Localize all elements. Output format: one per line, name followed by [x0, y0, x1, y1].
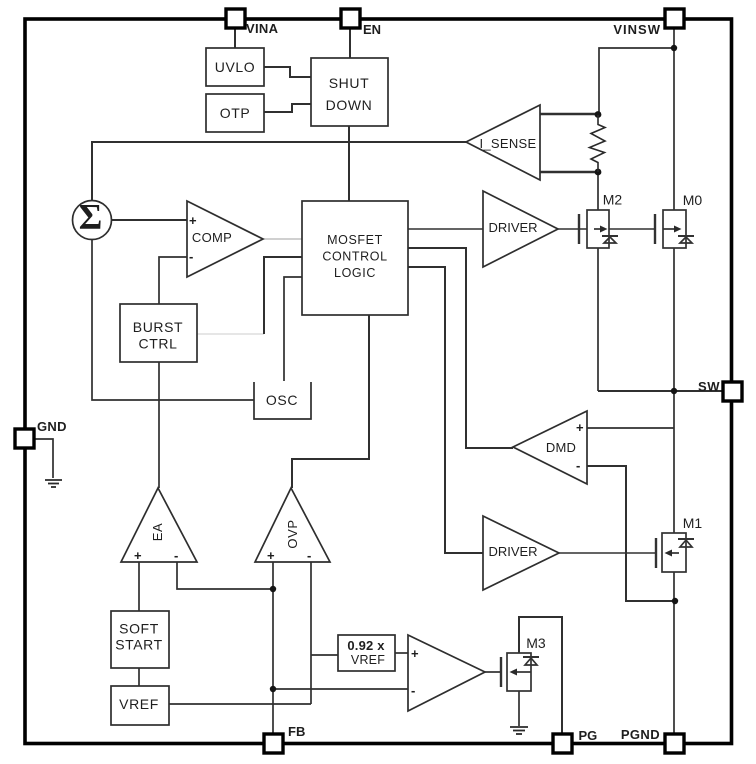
- svg-text:VREF: VREF: [119, 696, 159, 712]
- wire COMP output to MOSFET CONTROL LOGIC: [263, 238, 302, 240]
- transistor M0: [655, 210, 694, 248]
- svg-text:-: -: [411, 683, 415, 698]
- wire 0.92x block to PG comparator + input: [395, 652, 408, 654]
- svg-text:SW: SW: [698, 379, 720, 394]
- block OTP: [206, 94, 264, 132]
- comparator PG: [408, 635, 485, 711]
- svg-text:M3: M3: [526, 635, 546, 651]
- wire M3 drain to PG pin: [519, 617, 562, 733]
- svg-text:PG: PG: [579, 728, 598, 743]
- wire DMD + input to SW net: [587, 427, 674, 429]
- transistor M2: [579, 210, 618, 248]
- wire M3 source to ground: [518, 691, 520, 726]
- pin EN: [341, 9, 360, 28]
- node SW junction: [671, 388, 677, 394]
- wire M0 source down to SW rail: [673, 248, 675, 391]
- wire OVP - input down to VREF net: [310, 562, 312, 704]
- ground symbol at M3 source: [510, 727, 528, 734]
- svg-text:+: +: [411, 646, 419, 661]
- wire MCL to DMD output: [408, 248, 513, 448]
- svg-text:0.92 x: 0.92 x: [347, 638, 385, 653]
- wire M1 source to PGND pin: [673, 572, 675, 733]
- block SHUT DOWN: [311, 58, 388, 126]
- pin FB: [264, 734, 283, 753]
- svg-text:Σ: Σ: [79, 197, 103, 237]
- wire VINSW branch to sense resistor top: [599, 48, 674, 115]
- wire FB net to PG comparator - input: [273, 688, 408, 690]
- svg-text:+: +: [576, 420, 584, 435]
- svg-text:+: +: [267, 548, 275, 563]
- wire DRIVER2 output to M1 gate: [559, 552, 656, 554]
- wire MCL left to OSC top: [284, 277, 302, 381]
- wire PG comparator output to M3 gate: [485, 671, 501, 673]
- block BURST CTRL: [120, 304, 197, 362]
- wire M2 source down to SW rail: [597, 248, 599, 391]
- svg-text:DRIVER: DRIVER: [488, 544, 537, 559]
- wire SW rail down to M1 drain: [673, 391, 675, 533]
- svg-text:PGND: PGND: [621, 727, 660, 742]
- wire UVLO to SHUT DOWN: [264, 67, 311, 77]
- svg-text:+: +: [189, 213, 197, 228]
- svg-text:GND: GND: [37, 419, 67, 434]
- svg-text:LOGIC: LOGIC: [334, 266, 376, 280]
- wire I_SENSE output to sigma node: [92, 142, 466, 201]
- pin PGND: [665, 734, 684, 753]
- wire EN pin to SHUT DOWN: [349, 28, 351, 58]
- block SOFT START: [111, 611, 169, 668]
- svg-text:-: -: [307, 548, 311, 563]
- wire BURST CTRL bottom to EA output: [158, 362, 160, 488]
- svg-text:I_SENSE: I_SENSE: [479, 136, 536, 151]
- svg-text:EN: EN: [363, 22, 381, 37]
- node resistor bottom: [595, 169, 602, 176]
- svg-text:-: -: [576, 458, 580, 473]
- svg-text:MOSFET: MOSFET: [327, 233, 383, 247]
- wire sigma output to COMP + input: [112, 219, 187, 221]
- pin PG: [553, 734, 572, 753]
- node resistor top: [595, 111, 602, 118]
- wire VINSW pin down to M0 drain: [673, 28, 675, 210]
- svg-text:M2: M2: [603, 192, 623, 208]
- comparator OVP: [255, 488, 330, 562]
- svg-text:EA: EA: [150, 523, 165, 542]
- node M1 source junction: [672, 598, 678, 604]
- block UVLO: [206, 48, 264, 86]
- wire BURST CTRL feed up into MCL: [264, 257, 302, 334]
- pin SW: [723, 382, 742, 401]
- wire SOFT START to VREF: [138, 668, 140, 686]
- svg-text:DRIVER: DRIVER: [488, 220, 537, 235]
- wire MCL to DRIVER1: [408, 228, 483, 230]
- block VREF: [111, 686, 169, 725]
- wire MCL to DRIVER2: [408, 267, 483, 553]
- svg-text:-: -: [189, 249, 193, 264]
- svg-text:OTP: OTP: [220, 105, 251, 121]
- wire BURST CTRL right to MOSFET CONTROL LOGIC (faint segment): [197, 333, 264, 335]
- error amp EA: [121, 488, 197, 562]
- svg-text:M1: M1: [683, 515, 703, 531]
- wire sigma to OSC: [92, 239, 254, 400]
- driver DRIVER1: [483, 191, 558, 267]
- svg-text:M0: M0: [683, 192, 703, 208]
- svg-text:CONTROL: CONTROL: [322, 250, 387, 264]
- svg-text:FB: FB: [288, 724, 305, 739]
- svg-text:VINA: VINA: [246, 21, 279, 36]
- node VINSW branch: [671, 45, 677, 51]
- svg-text:SHUT: SHUT: [329, 75, 370, 91]
- driver DRIVER2: [483, 516, 559, 590]
- comparator DMD: [513, 411, 587, 484]
- wire VINA pin to UVLO: [234, 28, 236, 48]
- wire MCL bottom to OVP output: [292, 315, 369, 488]
- svg-text:OVP: OVP: [285, 519, 300, 548]
- plus minus marks: [134, 213, 584, 698]
- wire EA + input to SOFT START: [138, 562, 140, 611]
- sigma summing circle: [73, 201, 112, 240]
- wire I_SENSE bottom input to resistor bottom: [540, 171, 598, 173]
- ground symbol near GND pin: [45, 480, 62, 487]
- wire DMD - input to M1 source node: [587, 466, 675, 601]
- amplifier I_SENSE: [466, 105, 540, 180]
- sense resistor: [590, 115, 606, 172]
- node FB to PG comparator: [270, 686, 276, 692]
- svg-text:VINSW: VINSW: [613, 22, 661, 37]
- transistor M1: [656, 533, 694, 572]
- node EA- to FB: [270, 586, 276, 592]
- svg-text:SOFT: SOFT: [119, 621, 159, 637]
- pin GND: [15, 429, 34, 448]
- svg-text:OSC: OSC: [266, 392, 298, 408]
- svg-text:START: START: [115, 637, 163, 653]
- wire DRIVER1 output through M2 gate to M0 gate: [558, 228, 655, 230]
- svg-text:BURST: BURST: [133, 319, 183, 335]
- wire OTP to SHUT DOWN: [264, 104, 311, 112]
- svg-text:COMP: COMP: [192, 230, 232, 245]
- pin VINA: [226, 9, 245, 28]
- wire BURST CTRL top to COMP - input: [159, 257, 187, 304]
- wire VREF net to 0.92x block: [311, 654, 338, 656]
- wire SW rail to SW pin: [598, 390, 722, 392]
- svg-text:VREF: VREF: [351, 653, 385, 667]
- wire VREF output to OVP - net: [169, 703, 311, 705]
- svg-text:+: +: [134, 548, 142, 563]
- op-amp COMP: [187, 201, 263, 277]
- block 0.92 x VREF: [338, 635, 395, 671]
- wire EA - input to FB net: [177, 562, 273, 589]
- block MOSFET CONTROL LOGIC: [302, 201, 408, 315]
- wire resistor bottom to M2 drain: [597, 172, 599, 210]
- wire SHUT DOWN to MOSFET CONTROL LOGIC: [348, 126, 350, 201]
- svg-text:DOWN: DOWN: [326, 97, 373, 113]
- transistor M3: [501, 653, 539, 691]
- svg-text:DMD: DMD: [546, 440, 576, 455]
- wire GND pin to ground symbol: [34, 439, 53, 478]
- svg-text:-: -: [174, 548, 178, 563]
- wire OVP + input down to FB pin: [272, 562, 274, 733]
- wire I_SENSE top input to resistor top: [540, 113, 598, 115]
- pin VINSW: [665, 9, 684, 28]
- svg-text:UVLO: UVLO: [215, 59, 256, 75]
- svg-text:CTRL: CTRL: [139, 336, 178, 352]
- block OSC (open top): [254, 382, 311, 419]
